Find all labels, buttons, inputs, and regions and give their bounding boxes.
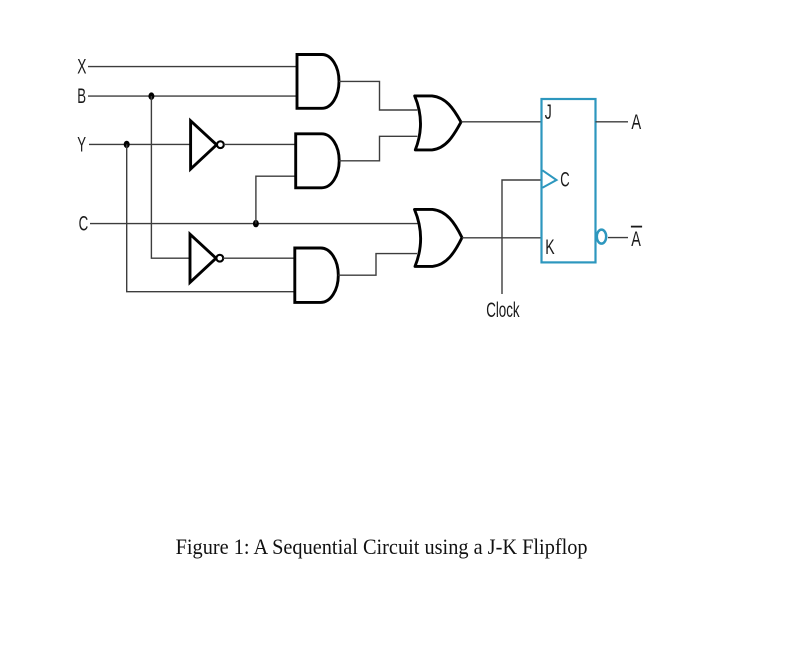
OR gate G5 (415, 209, 463, 266)
svg-text:A: A (631, 228, 641, 251)
svg-text:C: C (79, 213, 89, 236)
wire inverter U2 output to AND3 (223, 257, 295, 259)
junction dot B (148, 92, 154, 99)
wire OR G4 output to J input (461, 121, 541, 123)
svg-text:Figure 1: A Sequential Circuit: Figure 1: A Sequential Circuit using a J… (176, 534, 588, 559)
wire OR G5 output to K input (462, 237, 542, 239)
svg-text:K: K (545, 236, 554, 259)
wire C input to OR2 (90, 223, 418, 225)
junction dot Y (124, 141, 130, 148)
svg-text:Clock: Clock (486, 299, 520, 322)
svg-text:C: C (560, 168, 569, 191)
wire Y input (89, 143, 191, 145)
inverter U1 (Y) (191, 121, 224, 169)
OR gate G4 (415, 96, 461, 150)
wire AND G1 output to OR G4 upper input (339, 81, 417, 110)
inverter U2 (B) (190, 234, 223, 282)
output bubble Q-bar (597, 230, 606, 244)
svg-text:J: J (545, 101, 552, 124)
wire clock vertical and into C (502, 180, 542, 294)
node label A-bar (631, 227, 642, 251)
svg-text:A: A (631, 111, 641, 134)
wire B branch to inverter 2 (151, 96, 189, 258)
svg-text:B: B (77, 85, 86, 108)
junction dot C (253, 220, 259, 227)
AND gate G3 (295, 248, 339, 302)
wire C branch to AND2 lower input (256, 176, 297, 223)
J-K flip-flop U3 (542, 99, 596, 262)
AND gate G2 (296, 134, 340, 188)
svg-text:X: X (77, 55, 86, 78)
wire AND G2 output to OR G4 lower input (339, 136, 417, 161)
wire X input (88, 66, 297, 68)
svg-text:Y: Y (77, 133, 86, 156)
AND gate G1 (297, 55, 339, 109)
wire B input (88, 95, 297, 97)
wire inverter U1 output to AND2 (224, 143, 297, 145)
wire Q output to A (596, 121, 629, 123)
wire Q-bar output to A-bar (608, 237, 628, 239)
wire Y branch to AND3 lower input (127, 144, 296, 291)
wire AND G3 output to OR G5 lower input (338, 254, 417, 276)
clock edge triangle (542, 170, 556, 188)
